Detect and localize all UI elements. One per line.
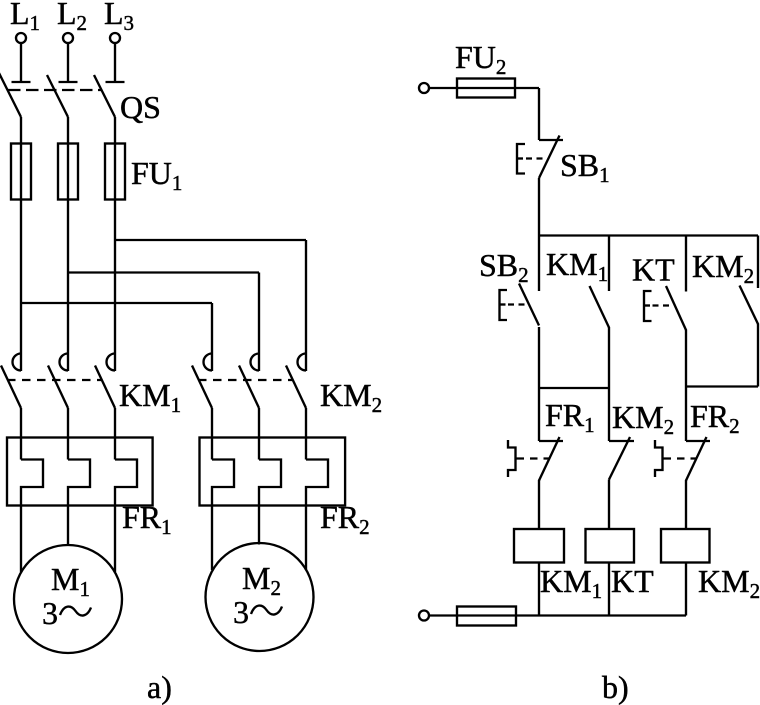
switch QS pole 1 (0, 68, 31, 117)
wire terminal to FU2 (429, 87, 539, 89)
wire FU2 to SB1 (538, 88, 540, 140)
svg-text:KM2: KM2 (698, 563, 760, 603)
svg-text:L2: L2 (57, 0, 87, 35)
wire QS to FU1 column 1 (20, 117, 22, 371)
KM1 linkage (dashed) (7, 379, 102, 381)
motor M2 (206, 543, 314, 651)
wire FR2 contact to KM2 coil (685, 480, 687, 529)
svg-text:FR2: FR2 (320, 499, 370, 539)
contactor KM1 main contact 2 (48, 354, 68, 409)
wire KM1 contact 1 to FR1 (20, 408, 22, 460)
wire KM2 aux to KT branch (686, 385, 758, 387)
svg-text:KT: KT (611, 563, 654, 599)
fuse FU1 element 1 (11, 144, 31, 200)
svg-text:KM1: KM1 (546, 246, 608, 286)
wire KM1 aux to junction A (608, 327, 610, 388)
switch QS pole 2 (47, 75, 78, 117)
wire FR1 to motor M1 phase 2 (67, 506, 69, 546)
wire L1 to QS (20, 44, 22, 83)
svg-text:FU2: FU2 (455, 39, 506, 79)
svg-text:SB1: SB1 (560, 147, 610, 187)
contactor KM2 main contact 1 (192, 354, 212, 409)
terminal L2 (63, 33, 73, 43)
pushbutton SB1 (NC) (517, 136, 563, 179)
svg-text:KT: KT (632, 252, 675, 288)
wire L2 to QS (67, 44, 69, 83)
wire bus to SB2 (538, 236, 540, 292)
terminal top (control supply) (419, 83, 429, 93)
svg-text:FR2: FR2 (690, 398, 740, 438)
svg-text:a): a) (147, 669, 172, 705)
wire KM1 contact 2 to FR1 (67, 408, 69, 460)
contactor KM2 main contact 2 (239, 354, 259, 409)
contactor KM1 main contact 1 (1, 354, 21, 409)
wire QS to FU1 column 2 (67, 117, 69, 371)
wire KM2 coil to bottom bus (685, 563, 687, 616)
coil KM1 (514, 529, 564, 563)
fuse FU2 (457, 79, 515, 98)
svg-text:FR1: FR1 (545, 397, 595, 437)
FR1 heater element 1 (21, 460, 43, 506)
junction A wire (SB2/KM1 join) (539, 387, 609, 389)
wire FR2 to motor M2 phase 3 (305, 506, 307, 571)
wire SB1 to top bus (538, 178, 540, 236)
wire FR1 to motor M1 phase 3 (114, 506, 116, 573)
wire FR2 to motor M2 phase 2 (258, 506, 260, 545)
wire tap L2 branch to motor 2 (68, 273, 259, 372)
wire KM2 aux down (757, 324, 759, 387)
svg-text:L3: L3 (104, 0, 134, 35)
svg-text:L1: L1 (10, 0, 40, 35)
motor M1 (14, 545, 122, 653)
wire bus to KM1 aux (608, 236, 610, 292)
svg-text:KM1: KM1 (540, 563, 602, 603)
contact KM2 (NC interlock) (609, 437, 634, 480)
svg-text:KM2: KM2 (692, 248, 754, 288)
coil KM2 (661, 529, 710, 563)
FR1 heater element 2 (68, 460, 90, 506)
wire FR1 to motor M1 phase 1 (20, 506, 22, 573)
wire KT coil to bottom bus (608, 563, 610, 616)
contact FR2 (NC, thermal) (655, 437, 710, 481)
svg-text:KM2: KM2 (612, 399, 674, 439)
svg-text:KM2: KM2 (320, 377, 382, 417)
wire junction A to FR1 contact (538, 388, 540, 441)
svg-text:QS: QS (120, 89, 161, 125)
wire tap L3 branch to motor 2 (115, 240, 306, 371)
svg-text:KM1: KM1 (119, 377, 181, 417)
wire KM2 contact 2 to FR2 (258, 408, 260, 460)
wire SB2 to junction A (538, 327, 540, 388)
terminal L3 (110, 33, 120, 43)
svg-text:SB2: SB2 (479, 247, 529, 287)
svg-text:FU1: FU1 (131, 155, 182, 195)
terminal L1 (16, 33, 26, 43)
fuse FU2 return element (457, 607, 516, 626)
contact FR1 (NC, thermal) (508, 437, 563, 481)
wire bus to KT contact (685, 236, 687, 292)
FR1 heater element 3 (115, 460, 137, 506)
switch QS pole 3 (94, 75, 125, 117)
FR2 heater element 3 (306, 460, 328, 506)
svg-text:b): b) (602, 669, 629, 705)
fuse FU1 element 3 (105, 144, 125, 200)
svg-text:FR1: FR1 (122, 499, 172, 539)
contact KM1 aux (NO, self-hold) (590, 286, 610, 328)
contact KM2 aux (NO) (740, 286, 759, 325)
terminal bottom (control return) (419, 611, 429, 621)
KM2 linkage (dashed) (198, 379, 293, 381)
FR2 heater element 1 (212, 460, 234, 506)
wire FR2 to motor M2 phase 1 (211, 506, 213, 571)
wire junction A to KM2 interlock (608, 388, 610, 441)
thermal relay FR1 box (7, 438, 153, 506)
wire bus to KM2 aux (757, 236, 759, 289)
wire KT contact down to FR2 branch (685, 330, 687, 442)
svg-text:3: 3 (233, 594, 249, 630)
wire KM2 contact 3 to FR2 (305, 408, 307, 460)
pushbutton SB2 (NO) (500, 284, 540, 326)
coil KT (586, 529, 635, 563)
wire KM2 contact 1 to FR2 (211, 408, 213, 460)
top bus (539, 234, 758, 236)
wire tap L1 branch to motor 2 (21, 303, 212, 371)
wire L3 to QS (114, 44, 116, 83)
wire FR1 contact to KM1 coil (538, 480, 540, 529)
FR2 heater element 2 (259, 460, 281, 506)
wire QS to FU1 column 3 (114, 117, 116, 371)
contactor KM1 main contact 3 (95, 354, 115, 409)
wire KM1 coil to bottom bus (538, 563, 540, 616)
thermal relay FR2 box (200, 438, 346, 506)
QS linkage (dashed) (8, 89, 102, 91)
bottom bus (429, 614, 686, 616)
wire KM2 interlock to KT coil (608, 480, 610, 530)
fuse FU1 element 2 (58, 144, 78, 200)
svg-text:3: 3 (42, 595, 58, 631)
contactor KM2 main contact 3 (286, 354, 306, 409)
wire KM1 contact 3 to FR1 (114, 408, 116, 460)
contact KT (NO, time delayed) (644, 286, 686, 330)
